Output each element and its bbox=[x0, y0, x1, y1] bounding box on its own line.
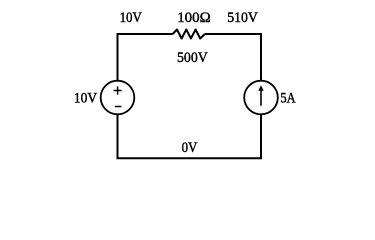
svg-text:5A: 5A bbox=[280, 91, 295, 107]
wire bottom segment bbox=[118, 115, 262, 158]
svg-text:10V: 10V bbox=[74, 91, 97, 107]
svg-text:500V: 500V bbox=[177, 50, 208, 66]
svg-text:510V: 510V bbox=[227, 10, 258, 26]
svg-text:10V: 10V bbox=[120, 10, 142, 26]
resistor R1 zigzag bbox=[173, 30, 205, 39]
current source I1 circle bbox=[244, 81, 278, 115]
svg-text:100Ω: 100Ω bbox=[177, 10, 211, 26]
voltage source plus sign bbox=[114, 86, 122, 94]
voltage source V1 circle bbox=[101, 81, 135, 115]
wire top-right segment bbox=[205, 34, 261, 80]
wire top-left segment bbox=[118, 34, 173, 80]
current source arrow bbox=[258, 85, 264, 105]
voltage source minus sign bbox=[115, 106, 122, 108]
svg-text:0V: 0V bbox=[182, 140, 198, 156]
